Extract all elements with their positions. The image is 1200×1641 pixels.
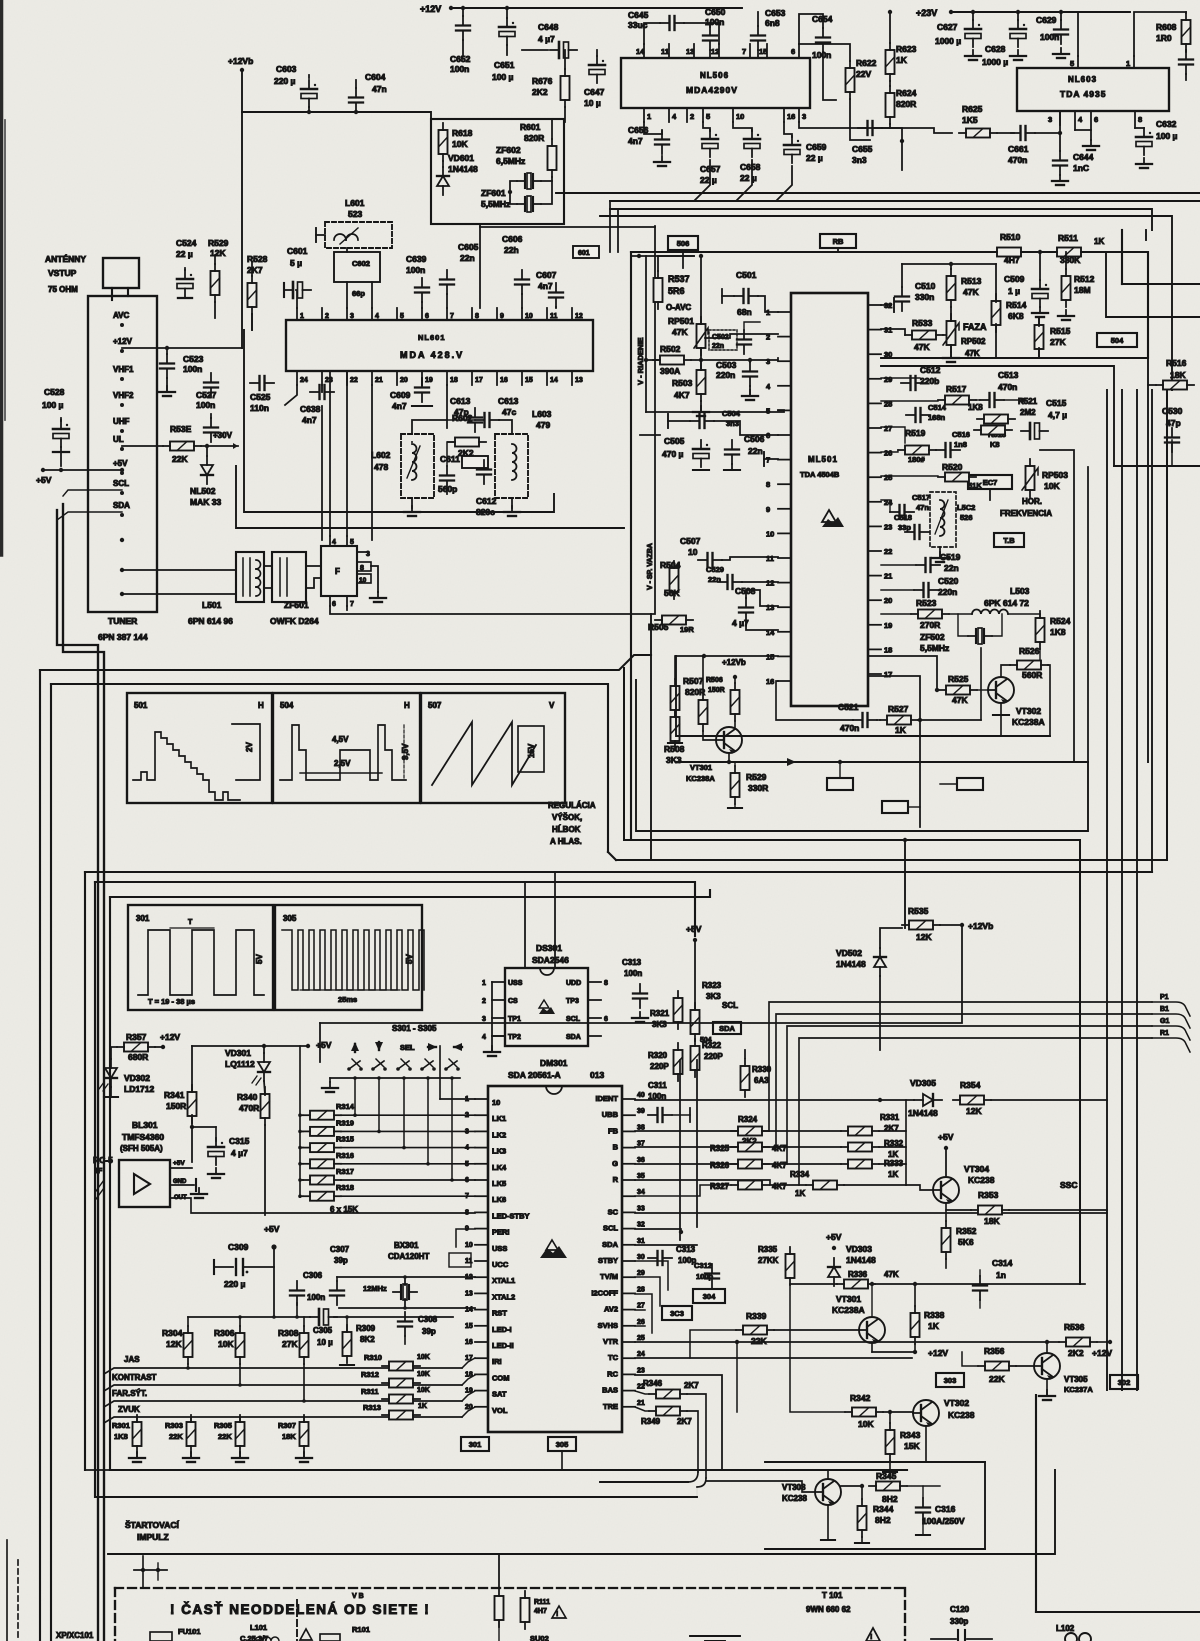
svg-text:L5C2: L5C2 [957,503,975,512]
capacitor C650 sym [703,26,717,50]
capacitor C632 [1136,128,1152,155]
wire [881,329,905,335]
svg-text:220n: 220n [938,587,957,597]
wire [700,256,702,324]
svg-text:18: 18 [450,377,458,384]
wire [734,762,736,766]
wire [995,324,997,358]
svg-text:C501: C501 [736,270,757,280]
wire [210,414,212,418]
wire [882,124,890,128]
svg-text:22n: 22n [460,253,475,263]
svg-text:ML501: ML501 [808,455,838,464]
svg-text:6: 6 [791,47,795,56]
block label RB [820,234,856,248]
svg-text:LED-STBY: LED-STBY [492,1211,530,1220]
svg-text:9,5V: 9,5V [401,743,410,760]
diode NL502 [201,456,213,484]
svg-text:C513: C513 [998,370,1019,380]
resistor R321 [674,991,683,1029]
svg-text:SCL: SCL [722,1001,738,1010]
wire [714,421,778,435]
ground [504,506,520,516]
resistor R529 sym [211,264,220,302]
wire [300,1147,303,1149]
wire rail 466 [1114,465,1200,467]
wire [564,107,566,122]
ground [1136,158,1152,168]
capacitor C652 [456,16,470,40]
pin 6 F [329,596,331,606]
wire pin17 drop [868,676,920,827]
wire bus 840 [624,668,1080,1284]
svg-text:22K: 22K [172,454,188,464]
svg-text:18K: 18K [1170,370,1186,380]
svg-text:6n8: 6n8 [765,18,780,28]
svg-text:305: 305 [556,1440,569,1449]
wire [446,442,448,466]
svg-text:H: H [258,701,264,710]
capacitor C513 sym [980,393,1004,407]
wire [1035,111,1060,133]
wire [646,359,658,361]
wire [1075,130,1091,140]
pin 34 DM301 [622,1195,635,1197]
wire [702,656,704,693]
wire [850,99,870,140]
pin 4 NL603 [1074,111,1076,130]
svg-text:LD1712: LD1712 [124,1084,155,1094]
capacitor C309 sym [213,1260,215,1274]
wire [777,166,792,200]
svg-text:10: 10 [525,313,533,320]
svg-text:HĹBOK: HĹBOK [552,825,581,834]
wire [111,1047,117,1059]
svg-text:TC: TC [608,1353,619,1362]
capacitor C316 sym [916,1498,930,1522]
pin 21 NL601 bottom [371,371,373,385]
pin 7 NL506 [749,44,751,58]
svg-text:1n8: 1n8 [954,440,967,449]
resistor R508 [671,710,680,748]
pin 4 NL506 bottom [668,108,670,122]
svg-text:6,5MHz: 6,5MHz [496,156,525,166]
wire bus 1482 [600,1481,688,1483]
diode VD502 [874,948,886,976]
resistor R513 [947,269,956,307]
wire [1048,665,1050,736]
wire [403,1078,405,1148]
wire [977,689,988,691]
capacitor C605 sym [440,270,454,294]
wire [421,302,423,308]
ground [1010,50,1026,60]
wire [1046,1379,1048,1394]
svg-text:17: 17 [475,377,483,384]
wire rail 1317 [188,1316,310,1318]
svg-text:1K8: 1K8 [1050,627,1066,637]
svg-text:C315: C315 [229,1136,250,1146]
waveform squarewave 301 [138,930,264,995]
wire [922,1522,924,1535]
wire G [635,1163,841,1165]
resistor R519 sym [898,446,936,455]
wire [1077,12,1079,56]
resistor R333 [841,1160,879,1169]
diode VD601 [437,167,449,195]
wire [881,400,938,402]
wire [703,731,716,740]
svg-text:1N4148: 1N4148 [908,1108,938,1118]
svg-text:25: 25 [637,1335,645,1342]
wire [823,52,836,100]
warning triangle R111 [552,1606,566,1618]
svg-text:504: 504 [280,701,294,710]
wire [296,290,297,308]
pin 15 NL506 [766,44,768,58]
wire [439,1046,441,1099]
svg-text:SDA: SDA [566,1034,581,1041]
wire [170,1167,192,1169]
wire [122,347,242,349]
wire [170,1184,194,1186]
wire right riser 1167 [1166,390,1168,860]
pin 7 ML501 [778,459,791,461]
svg-text:AVC: AVC [113,311,130,320]
wire [446,294,448,308]
svg-text:1: 1 [482,980,486,987]
resistor R304 [184,1326,193,1364]
LED VD302 [105,1059,117,1087]
svg-text:C510: C510 [915,281,936,291]
svg-text:C514: C514 [928,403,947,412]
resistor R349 [649,1407,687,1416]
svg-text:39p: 39p [422,1327,436,1336]
svg-text:NL601: NL601 [418,333,446,342]
svg-text:VSTUP: VSTUP [48,268,77,278]
svg-text:R342: R342 [850,1393,871,1403]
capacitor C506 sym [725,440,739,464]
pin 7 F [346,596,348,606]
svg-text:220 µ: 220 µ [224,1279,246,1289]
wire [354,1078,356,1115]
tuner box TUNER [88,296,157,612]
svg-text:C521: C521 [838,702,859,712]
wire frame IF [244,330,554,512]
wire [883,1411,913,1413]
resistor R623 [886,43,895,81]
svg-text:MDA4290V: MDA4290V [686,85,738,95]
capacitor C310 sym [648,1108,672,1122]
svg-text:SDA: SDA [602,1240,618,1249]
wire [510,181,517,204]
wire +12Vb to R618 box [242,112,431,119]
block label 302b [1110,1375,1138,1389]
capacitor C516 sym2 [936,443,960,457]
svg-text:R503: R503 [672,378,693,388]
svg-text:220P: 220P [650,1062,669,1071]
block label 506 [668,236,698,250]
svg-text:R317: R317 [336,1167,354,1176]
svg-text:R306: R306 [214,1328,235,1338]
wire [991,1099,1107,1101]
resistor R319 [303,1127,341,1136]
wire [799,44,850,61]
pot RP503 sym [1026,459,1035,497]
svg-text:3K3: 3K3 [706,992,721,1001]
wire [155,1046,163,1048]
wire [251,262,253,276]
svg-text:VT301: VT301 [836,1294,861,1304]
svg-text:C652: C652 [450,54,471,64]
transistor VT302b [913,1400,939,1427]
pin 21 ML501 [868,575,881,577]
wire [192,1126,216,1128]
pin 16 NL506 bottom [783,108,785,122]
svg-text:27K: 27K [1050,337,1066,347]
capacitor C315 sym [208,1138,224,1165]
block bottom right [1035,1395,1037,1612]
pin 5 NL506 bottom [702,108,704,122]
svg-text:C647: C647 [584,87,605,97]
svg-text:R338: R338 [924,1310,945,1320]
wire [700,348,702,360]
wire [889,1412,891,1423]
wire [945,1148,947,1177]
svg-text:26: 26 [884,449,892,458]
svg-text:R320: R320 [648,1051,668,1060]
wire right rail A [1147,358,1149,762]
svg-text:C651: C651 [494,60,515,70]
svg-text:T.B: T.B [1003,536,1015,545]
wire frame 736 [676,656,1050,736]
svg-text:VD305: VD305 [910,1078,936,1088]
resistor R315 [303,1143,341,1152]
svg-text:100n: 100n [183,364,202,374]
wire [742,581,778,583]
pin 3 NL506 bottom [798,108,800,122]
pin 9 ML501 [778,508,791,510]
capacitor C508 sym [739,598,753,622]
wire [555,307,557,308]
svg-text:4H7: 4H7 [1004,255,1020,265]
wire [306,578,321,588]
wire rail 762 [676,761,1088,763]
svg-text:2M2: 2M2 [1020,408,1036,417]
wire [1038,348,1040,358]
svg-text:6: 6 [1094,115,1098,124]
block label 303b [936,1373,964,1387]
wire [881,589,914,591]
wire [321,385,323,392]
pin 20 DM301 [475,1406,488,1408]
wire [757,50,759,58]
svg-text:+12Vb: +12Vb [968,921,993,931]
wire R [635,1180,806,1185]
wire [1148,384,1156,386]
svg-text:2,5V: 2,5V [334,759,351,768]
wire [722,295,734,297]
capacitor C521 sym [853,713,877,727]
svg-text:7: 7 [742,47,746,56]
pin 11 NL506 [668,44,670,58]
wire [631,255,694,257]
wire [341,1147,475,1149]
wire [421,378,423,385]
svg-text:C601: C601 [287,246,308,256]
wire rail 366 [881,366,1114,466]
resistor R516 [1156,381,1194,390]
ground [322,1082,338,1092]
label b01 [573,246,599,258]
ground [183,1452,199,1462]
pin 19 NL601 bottom [421,371,423,385]
wire right bus 3 [1151,390,1153,872]
svg-text:25ms: 25ms [338,995,357,1004]
wire [264,1081,265,1095]
pin 1 NL506 bottom [643,108,645,122]
svg-text:18M: 18M [1074,285,1091,295]
svg-text:4H7: 4H7 [534,1608,547,1615]
wire [940,924,962,926]
op-amp NL603 TDA4935 [1017,68,1169,111]
pin 33 DM301 [622,1211,635,1213]
pin 27 DM301 [622,1309,635,1311]
svg-text:R529: R529 [746,772,767,782]
resistor R504 [670,561,679,599]
svg-text:24: 24 [637,1351,645,1358]
svg-text:1K8: 1K8 [114,1432,128,1441]
resistor R624 [886,86,895,124]
svg-text:10: 10 [766,529,774,538]
capacitor C526 sym [204,418,218,442]
wire [827,1470,829,1479]
wire [451,1078,453,1180]
wire [308,75,310,78]
pin 31 ML501 [868,329,881,331]
svg-text:330K: 330K [1060,255,1081,265]
block small box3 [957,778,983,790]
wire [972,12,974,20]
svg-text:T: T [188,919,193,926]
svg-text:C312: C312 [694,1261,712,1270]
wire [136,1453,138,1458]
wire [1008,613,1040,615]
capacitor C305 sym [310,1309,337,1325]
svg-text:R340: R340 [237,1092,258,1102]
svg-text:R312: R312 [361,1370,379,1379]
svg-text:13: 13 [575,377,583,384]
svg-text:9WN 660 62: 9WN 660 62 [806,1605,851,1614]
capacitor C503 sym [743,362,757,386]
block label 304b [693,1289,725,1303]
wire B [635,1146,841,1148]
block F [321,546,357,596]
svg-text:C529: C529 [706,565,724,574]
svg-text:2: 2 [482,998,486,1005]
block R618 frame [431,119,564,224]
wire wire pin5 [646,410,784,412]
fuse FU101 sym [150,1632,172,1641]
pin 23 DM301 [622,1373,635,1375]
svg-text:+5V: +5V [113,459,128,468]
pin 1 NL603 [1133,56,1135,68]
wire [700,401,702,412]
wire [551,119,553,139]
transformer L501 [236,552,264,602]
svg-text:R325: R325 [710,1144,730,1153]
resistor R303 [187,1415,196,1453]
svg-text:100 µ: 100 µ [1156,131,1178,141]
svg-text:MDA 428.V: MDA 428.V [400,350,464,360]
svg-text:R307: R307 [278,1421,296,1430]
svg-text:TP1: TP1 [508,1016,521,1023]
wire [60,447,62,466]
wire [448,441,455,443]
svg-text:TP3: TP3 [566,998,579,1005]
svg-text:R502: R502 [660,344,681,354]
wire [300,1179,303,1181]
svg-text:SU02: SU02 [530,1634,549,1641]
resistor R515 [1035,318,1044,356]
svg-text:NL506: NL506 [700,71,729,80]
wire [1009,1209,1107,1211]
svg-text:R513: R513 [961,276,982,286]
svg-text:15: 15 [525,377,533,384]
pin 38 DM301 [622,1130,635,1132]
resistor R521 sym [977,415,1015,424]
pin 5 ML501 [778,409,791,411]
svg-text:1: 1 [300,313,304,320]
resistor R308 [300,1326,309,1364]
svg-text:XP/XC101: XP/XC101 [56,1631,94,1640]
ground [932,552,948,562]
wire [1028,251,1058,253]
svg-text:6 x 15K: 6 x 15K [330,1205,358,1214]
svg-text:10: 10 [465,1242,473,1249]
svg-text:KC238: KC238 [968,1175,995,1185]
svg-text:SSC: SSC [1060,1180,1077,1190]
svg-text:B1: B1 [1160,1006,1169,1013]
svg-text:5K6: 5K6 [958,1237,974,1247]
wire [644,122,662,134]
wire [734,804,736,808]
capacitor C514 sym [906,408,930,422]
svg-text:LQ1112: LQ1112 [225,1059,255,1069]
wire [206,446,208,456]
wire [346,606,348,610]
svg-text:C519: C519 [940,552,961,562]
svg-text:47n: 47n [916,503,929,512]
wire TVM step [635,1277,660,1306]
capacitor C312 sym [705,1264,719,1288]
capacitor C658 [744,130,760,157]
svg-text:47K: 47K [914,342,930,352]
svg-text:SVHS: SVHS [598,1321,618,1330]
svg-text:UHF: UHF [113,417,130,426]
wire [950,345,952,356]
svg-text:330R: 330R [748,783,768,793]
wire [744,1050,746,1058]
wire SVHS stub [635,1325,645,1327]
wire [997,132,1014,134]
wire [263,1046,265,1053]
svg-text:NL603: NL603 [1068,75,1097,84]
svg-text:10 µ: 10 µ [584,98,601,108]
ground [943,352,959,362]
pin 18 ML501 [868,648,881,650]
wire [841,1486,862,1499]
